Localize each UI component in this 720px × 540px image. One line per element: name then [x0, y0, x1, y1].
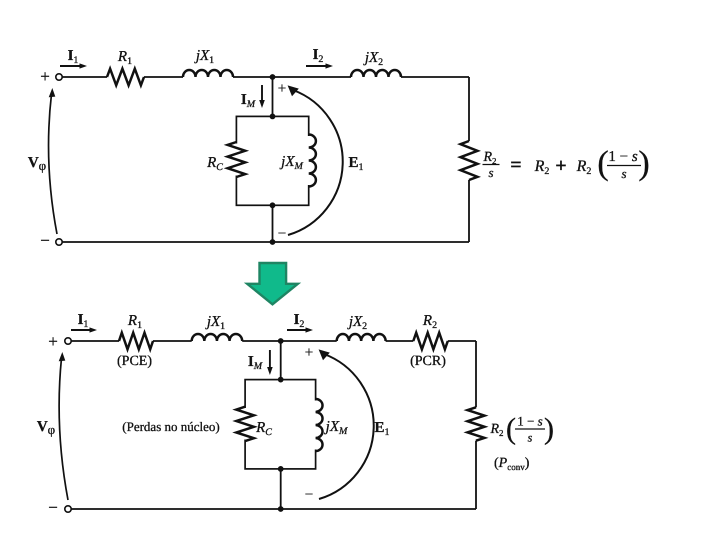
svg-text:+: +: [305, 345, 313, 361]
svg-text:−: −: [48, 498, 58, 517]
svg-text:−: −: [40, 231, 50, 250]
svg-text:s: s: [621, 166, 626, 181]
svg-text:(Perdas no núcleo): (Perdas no núcleo): [122, 419, 219, 434]
svg-text:Vφ: Vφ: [28, 155, 46, 173]
svg-text:(: (: [597, 145, 608, 182]
svg-text:(PCR): (PCR): [410, 354, 446, 369]
svg-text:−: −: [305, 487, 313, 503]
svg-text:s: s: [488, 165, 493, 180]
svg-text:(PCE): (PCE): [117, 354, 152, 369]
svg-text:+: +: [48, 332, 58, 351]
svg-text:s: s: [528, 431, 533, 445]
svg-text:+: +: [40, 67, 50, 86]
svg-text:+: +: [278, 81, 286, 97]
svg-text:Vφ: Vφ: [37, 419, 55, 437]
svg-text:): ): [544, 413, 554, 446]
svg-text:(: (: [506, 413, 516, 446]
svg-text:): ): [638, 145, 649, 182]
svg-text:−: −: [278, 226, 286, 242]
svg-text:=: =: [510, 154, 521, 176]
svg-text:+: +: [555, 155, 566, 177]
svg-text:1 − s: 1 − s: [608, 149, 637, 165]
svg-text:1 − s: 1 − s: [517, 414, 542, 429]
